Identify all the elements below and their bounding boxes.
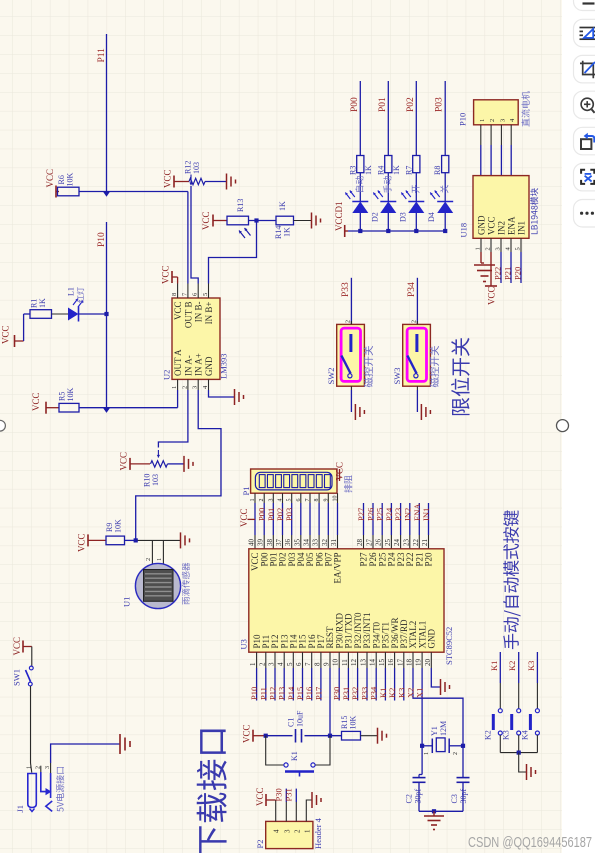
- title download-port: [197, 730, 227, 856]
- svg-text:IN B+: IN B+: [204, 302, 214, 325]
- wire net P10 vertical: [106, 222, 108, 408]
- SW3 lever: [407, 356, 416, 374]
- svg-text:21: 21: [421, 539, 429, 547]
- wire resistor to LED: [387, 173, 389, 202]
- SW3 contact bar: [415, 334, 418, 352]
- svg-text:103: 103: [151, 474, 160, 486]
- svg-text:1: 1: [249, 662, 257, 666]
- svg-text:10K: 10K: [349, 716, 358, 730]
- label 手动: [383, 176, 391, 193]
- label magnetic-switch: [429, 346, 439, 387]
- ground at R14: [311, 213, 313, 229]
- power VCCD1: [345, 230, 348, 232]
- svg-text:2: 2: [411, 320, 417, 323]
- wire button K4 down: [536, 735, 538, 753]
- wire J1 pin3 to ground: [51, 744, 120, 763]
- header P2 body: [266, 821, 313, 848]
- ground at buttons: [526, 764, 528, 780]
- wire P2 pin1 to ground: [306, 800, 311, 821]
- rain sensor U1 body: [135, 563, 180, 608]
- svg-text:P1: P1: [241, 487, 251, 496]
- switch SW2 body: [337, 324, 365, 386]
- svg-text:5: 5: [202, 293, 209, 296]
- push button K3: [517, 709, 521, 713]
- svg-text:C1: C1: [287, 718, 296, 727]
- svg-text:3: 3: [45, 766, 51, 769]
- svg-text:4: 4: [273, 829, 281, 833]
- wire net P00: [359, 81, 361, 156]
- svg-text:VCCD1: VCCD1: [334, 201, 344, 231]
- junction R13 R14: [254, 218, 258, 222]
- wire VCC to R1: [23, 314, 25, 341]
- svg-text:P27: P27: [356, 508, 366, 521]
- U2 top pins 8 7 6 5: [177, 284, 179, 299]
- svg-text:VCC: VCC: [173, 302, 183, 321]
- label 开: [412, 185, 420, 193]
- svg-text:SW1: SW1: [12, 669, 22, 686]
- svg-text:P27: P27: [359, 552, 369, 567]
- svg-text:EA/VPP: EA/VPP: [333, 553, 343, 584]
- svg-text:VCC: VCC: [77, 533, 87, 552]
- wire net P01: [387, 81, 389, 156]
- svg-text:12: 12: [350, 659, 358, 667]
- wire divider to IN B+: [209, 221, 257, 284]
- svg-text:2: 2: [453, 752, 459, 755]
- svg-text:VCC: VCC: [239, 508, 249, 527]
- svg-text:C3: C3: [450, 794, 459, 803]
- svg-text:K1: K1: [489, 661, 499, 671]
- junction sensor node: [134, 538, 138, 542]
- svg-text:P10: P10: [97, 232, 107, 247]
- ground at SW2: [354, 404, 356, 420]
- toolbar button annotate: [574, 19, 595, 47]
- wire U3 pin19 XTAL1 net X1: [421, 668, 423, 746]
- resistor R15: [342, 731, 361, 740]
- junction on VCCD1 bus: [414, 229, 418, 233]
- wire R6 to comparator output: [79, 191, 188, 193]
- ground at P2: [311, 792, 313, 808]
- svg-text:VCC: VCC: [119, 452, 129, 471]
- svg-text:12M: 12M: [439, 721, 448, 736]
- SW2 contact bar: [349, 334, 352, 352]
- wire U3 pin20 GND to ground: [431, 668, 440, 687]
- wire P2 pin2 net P31: [295, 802, 297, 821]
- svg-text:2: 2: [485, 247, 492, 250]
- svg-text:R7: R7: [404, 166, 413, 175]
- toolbar button rotate: [574, 127, 595, 155]
- svg-text:39: 39: [257, 539, 265, 547]
- label DC-motor: [521, 91, 529, 126]
- svg-text:5: 5: [515, 247, 522, 250]
- resistor R14: [276, 216, 294, 225]
- svg-text:1: 1: [479, 119, 486, 122]
- svg-text:R8: R8: [433, 166, 442, 175]
- connector J1 middle contact: [41, 772, 47, 792]
- LED D3: [408, 201, 424, 203]
- junction on VCCD1 bus: [443, 229, 447, 233]
- LED D4: [437, 201, 453, 203]
- svg-text:2: 2: [345, 320, 351, 323]
- svg-text:P00: P00: [350, 97, 360, 112]
- svg-text:K2: K2: [483, 730, 492, 740]
- svg-text:2: 2: [258, 662, 266, 666]
- svg-text:4: 4: [277, 662, 285, 666]
- svg-text:P21: P21: [503, 267, 513, 280]
- resistor R5: [59, 403, 79, 412]
- svg-text:P01: P01: [378, 97, 388, 112]
- svg-text:24: 24: [393, 539, 401, 547]
- toolbar button partial top: [574, 0, 595, 11]
- svg-text:K3: K3: [526, 661, 536, 671]
- svg-text:13: 13: [360, 659, 368, 667]
- svg-text:GND: GND: [477, 215, 487, 235]
- svg-text:1: 1: [26, 766, 32, 769]
- svg-text:GND: GND: [204, 356, 214, 376]
- svg-text:11: 11: [341, 659, 349, 666]
- ground at U18 pin1: [480, 252, 482, 263]
- svg-text:P2: P2: [255, 840, 265, 849]
- wire net K1 to button: [499, 652, 501, 683]
- switch SW3 body: [403, 324, 431, 386]
- svg-text:P20: P20: [513, 267, 523, 280]
- svg-text:3: 3: [192, 386, 199, 389]
- svg-text:P30: P30: [274, 788, 284, 801]
- svg-text:VCC: VCC: [1, 325, 11, 344]
- svg-text:30pf: 30pf: [459, 789, 468, 804]
- wire crystal right to C3: [462, 746, 464, 778]
- wire U18 ENA net P21: [510, 252, 512, 283]
- svg-text:IN A-: IN A-: [183, 355, 193, 376]
- label 关: [440, 185, 448, 193]
- ground at R15: [377, 728, 379, 744]
- wire LED to VCCD1 bus: [444, 213, 446, 231]
- wire IN A+ pin3 to sensor node: [136, 390, 221, 540]
- svg-text:37: 37: [275, 539, 283, 547]
- wire SW2 to ground: [350, 390, 352, 412]
- light arrows into R13: [239, 231, 245, 239]
- wires U3 pins 1-8 nets P10-P17: [256, 668, 258, 701]
- svg-text:10K: 10K: [114, 519, 123, 533]
- photoresistor R13: [227, 216, 249, 225]
- wire resistor to LED: [444, 173, 446, 202]
- op-amp U2 LM393 body: [172, 298, 220, 379]
- junction at R5 line: [103, 408, 110, 413]
- wire net P34: [416, 278, 418, 325]
- svg-text:22: 22: [412, 539, 420, 547]
- connector J1 pins: [31, 763, 32, 773]
- svg-text:U18: U18: [459, 223, 469, 238]
- power VCC at P2 pin4: [275, 800, 277, 821]
- junction crystal left: [420, 744, 424, 748]
- SW2 pin 1: [350, 386, 352, 390]
- wire C2 C3 to ground: [419, 810, 463, 812]
- SW2 pin 2: [350, 321, 352, 324]
- capacitor C1: [295, 729, 297, 743]
- svg-text:35: 35: [293, 539, 301, 547]
- svg-text:Y1: Y1: [430, 726, 439, 736]
- SW2 contact circle: [348, 374, 352, 378]
- svg-text:OUT B: OUT B: [183, 302, 193, 329]
- svg-text:D4: D4: [427, 212, 436, 222]
- U1 sensor pins: [151, 540, 153, 564]
- label magnetic-switch: [363, 346, 373, 387]
- svg-text:R4: R4: [376, 166, 385, 175]
- svg-text:25: 25: [384, 539, 392, 547]
- svg-text:1K: 1K: [283, 227, 292, 237]
- resistor R4: [385, 156, 392, 173]
- svg-text:18: 18: [406, 659, 414, 667]
- svg-text:K2: K2: [507, 661, 517, 671]
- svg-text:1: 1: [475, 247, 482, 250]
- svg-text:30pf: 30pf: [414, 789, 423, 804]
- svg-text:36: 36: [284, 539, 292, 547]
- svg-text:VCC: VCC: [487, 286, 497, 305]
- svg-text:IN1: IN1: [517, 221, 527, 235]
- svg-text:P03: P03: [284, 508, 294, 521]
- svg-text:1K: 1K: [278, 201, 287, 211]
- svg-text:P11: P11: [97, 48, 107, 63]
- svg-text:GND: GND: [427, 629, 437, 649]
- svg-text:27: 27: [366, 539, 374, 547]
- resistor R6: [58, 187, 80, 196]
- svg-text:X1: X1: [415, 688, 425, 698]
- wire P2 pin3 net P30: [285, 802, 287, 821]
- svg-text:P17: P17: [313, 687, 323, 700]
- svg-text:K3: K3: [502, 730, 511, 740]
- wire R12 wiper to IN B-: [191, 186, 198, 284]
- svg-text:VCC: VCC: [12, 637, 22, 656]
- wires P10 to U18: [480, 125, 482, 145]
- svg-text:K1: K1: [290, 751, 299, 761]
- svg-text:34: 34: [303, 539, 311, 547]
- svg-text:R13: R13: [236, 199, 245, 212]
- svg-text:U3: U3: [239, 639, 249, 649]
- svg-text:40: 40: [248, 539, 256, 547]
- right nav circle: [557, 420, 569, 432]
- svg-text:19: 19: [415, 659, 423, 667]
- label resistor-pack: [344, 475, 352, 492]
- wires U3 pins 15-17 nets K1 K2 K3: [384, 668, 386, 701]
- wire net P02: [415, 81, 417, 156]
- svg-text:3: 3: [499, 119, 506, 122]
- LED D1: [352, 201, 368, 203]
- U2 bottom pins 1 2 3 4: [177, 379, 179, 390]
- crystal Y1: [422, 745, 432, 747]
- svg-text:10uF: 10uF: [296, 710, 305, 727]
- wire button K3 down: [518, 735, 520, 753]
- ground at R10: [183, 456, 185, 472]
- svg-text:1: 1: [171, 386, 178, 389]
- svg-text:103: 103: [192, 162, 201, 174]
- toolbar button crop: [574, 55, 595, 83]
- junction at crystal ground: [432, 809, 436, 813]
- wire IN A- pin2 to R10 wiper: [158, 390, 188, 448]
- toolbar button more: [574, 200, 595, 228]
- wires U3 right top columns nets: [363, 535, 365, 549]
- wire L1 to net P10: [79, 313, 107, 315]
- svg-text:38: 38: [266, 539, 274, 547]
- wire R15 to ground: [361, 735, 378, 737]
- svg-text:D3: D3: [398, 212, 407, 222]
- svg-text:2: 2: [489, 119, 496, 122]
- wire resistor to LED: [359, 173, 361, 202]
- svg-text:VCC: VCC: [201, 211, 211, 230]
- label raindrop-sensor: [182, 563, 190, 605]
- ground at J1: [119, 734, 121, 754]
- svg-text:CSDN @QQ1694456187: CSDN @QQ1694456187: [468, 834, 592, 851]
- svg-text:1K: 1K: [364, 165, 373, 175]
- wire SW1 to J1: [30, 686, 32, 763]
- svg-text:P33: P33: [341, 282, 351, 297]
- wire U18 IN1 net P20: [520, 252, 522, 283]
- wire net P11 vertical: [106, 34, 108, 192]
- svg-text:IN2: IN2: [402, 508, 412, 521]
- ground at U3 pin20: [440, 679, 442, 695]
- svg-text:3: 3: [268, 662, 276, 666]
- ground at U2 pin4: [234, 389, 236, 405]
- svg-text:7: 7: [304, 662, 312, 666]
- svg-text:31: 31: [330, 539, 338, 547]
- ground at R12: [226, 174, 228, 190]
- svg-text:2: 2: [181, 386, 188, 389]
- svg-text:VCC: VCC: [161, 265, 171, 284]
- wire SW3 to ground: [416, 390, 418, 412]
- toolbar button zoom: [574, 91, 595, 119]
- label 自动: [355, 176, 363, 192]
- wire net P03: [444, 81, 446, 156]
- svg-text:9: 9: [323, 662, 331, 666]
- wire U18 IN2 net P22: [500, 252, 502, 283]
- svg-text:Header 4: Header 4: [313, 817, 323, 849]
- svg-text:26: 26: [375, 539, 383, 547]
- svg-text:J1: J1: [15, 805, 25, 813]
- wire U3 pin18 XTAL2 net X2: [413, 668, 463, 746]
- resistor R3: [357, 156, 364, 173]
- svg-text:VCC: VCC: [242, 724, 252, 743]
- capacitor C2: [418, 775, 420, 778]
- wire net P33: [350, 278, 352, 325]
- switch SW1: [29, 666, 33, 670]
- SW3 pin 1: [416, 386, 418, 390]
- svg-text:16: 16: [387, 659, 395, 667]
- wire LED to VCCD1 bus: [359, 213, 361, 231]
- svg-text:IN2: IN2: [497, 221, 507, 235]
- wires P1 to U3 left columns: [254, 493, 256, 503]
- trimmer R12: [189, 178, 205, 184]
- svg-text:SW2: SW2: [326, 368, 336, 385]
- wire R13 to junction: [249, 220, 277, 222]
- svg-text:U1: U1: [122, 597, 132, 607]
- resistor R7: [413, 156, 420, 173]
- svg-text:VCC: VCC: [45, 169, 55, 188]
- title manual-auto-mode-buttons: [503, 510, 520, 649]
- junction C1 right: [328, 734, 332, 738]
- svg-text:P20: P20: [424, 552, 434, 567]
- svg-text:23: 23: [402, 539, 410, 547]
- svg-text:VCC: VCC: [487, 216, 497, 235]
- svg-text:5: 5: [286, 662, 294, 666]
- svg-text:LM393: LM393: [219, 354, 229, 380]
- junction at R6 output: [103, 192, 110, 197]
- toolbar button fullscreen: [574, 163, 595, 191]
- resistor network P1 body: [251, 469, 337, 493]
- svg-text:2: 2: [293, 829, 301, 833]
- svg-text:P22: P22: [405, 553, 415, 567]
- svg-text:33: 33: [312, 539, 320, 547]
- svg-text:1: 1: [424, 752, 430, 755]
- junction on VCCD1 bus: [358, 229, 362, 233]
- svg-text:P22: P22: [493, 267, 503, 280]
- label red-light: [77, 287, 84, 302]
- svg-text:P34: P34: [407, 282, 417, 297]
- svg-text:OUT A: OUT A: [173, 349, 183, 376]
- push button K4: [535, 709, 539, 713]
- svg-text:IN1: IN1: [421, 508, 431, 521]
- svg-text:VCC: VCC: [31, 392, 41, 411]
- svg-text:2: 2: [145, 558, 152, 561]
- wires U3 pins 10-14 nets P30-P34: [338, 668, 340, 701]
- svg-text:K4: K4: [520, 730, 529, 740]
- wire button bus: [500, 752, 537, 754]
- svg-text:ENA: ENA: [507, 216, 517, 235]
- wire GND pin4 to ground: [209, 390, 235, 397]
- svg-text:1K: 1K: [38, 298, 47, 308]
- wire net K2 to button: [518, 652, 520, 683]
- wire U3 pin9 REST to reset circuit: [329, 668, 331, 736]
- svg-text:C2: C2: [405, 794, 414, 803]
- svg-text:1: 1: [303, 829, 311, 833]
- wire resistor to LED: [415, 173, 417, 202]
- svg-text:VCC: VCC: [163, 169, 173, 188]
- wire R5 to OUT A: [79, 407, 178, 409]
- MCU U3 body: [249, 549, 444, 652]
- svg-text:STC89C52: STC89C52: [444, 627, 454, 665]
- junction on VCCD1 bus: [386, 229, 390, 233]
- wire R1 to L1: [52, 313, 69, 315]
- junction crystal right: [461, 744, 465, 748]
- svg-text:3: 3: [495, 247, 502, 250]
- ground at SW3: [420, 404, 422, 420]
- resistor R8: [442, 156, 449, 173]
- LED D2: [380, 201, 396, 203]
- connector J1 barrel: [28, 774, 37, 808]
- wire R9 to sensor and ground: [125, 539, 136, 541]
- svg-text:R3: R3: [348, 166, 357, 175]
- svg-text:10K: 10K: [66, 173, 75, 187]
- svg-text:17: 17: [396, 659, 404, 667]
- label LB1948 module: [530, 188, 538, 234]
- power VCC at U18 pin2: [490, 252, 492, 286]
- svg-text:P31: P31: [284, 788, 294, 801]
- resistor R9: [106, 536, 125, 545]
- push button K2: [498, 709, 502, 713]
- wire R14 to ground: [294, 220, 312, 222]
- ground at U1: [180, 532, 182, 548]
- svg-text:IN B-: IN B-: [194, 302, 204, 323]
- svg-text:14: 14: [369, 659, 377, 667]
- wire LED to VCCD1 bus: [415, 213, 417, 231]
- capacitor C3: [457, 777, 470, 779]
- svg-text:20: 20: [424, 659, 432, 667]
- svg-text:SW3: SW3: [392, 368, 402, 385]
- wire button K2 down: [499, 735, 501, 753]
- ground at crystal: [433, 811, 435, 816]
- left nav circle: [0, 420, 5, 431]
- wire LED to VCCD1 bus: [387, 213, 389, 231]
- U18 bottom pins 1-5: [480, 238, 482, 252]
- wire VCC node to REST: [266, 735, 293, 737]
- wire bus to ground: [519, 753, 526, 772]
